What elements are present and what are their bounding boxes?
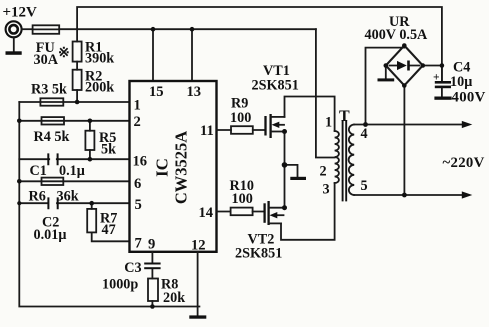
svg-text:9: 9 xyxy=(148,237,155,253)
svg-text:47: 47 xyxy=(102,222,116,238)
svg-text:14: 14 xyxy=(199,205,214,221)
svg-text:4: 4 xyxy=(361,126,368,142)
svg-text:3: 3 xyxy=(323,182,330,198)
svg-text:390k: 390k xyxy=(85,51,114,67)
svg-text:30A: 30A xyxy=(34,52,59,68)
svg-text:0.1μ: 0.1μ xyxy=(59,163,85,179)
svg-text:R3 5k: R3 5k xyxy=(31,82,67,98)
svg-text:2SK851: 2SK851 xyxy=(235,246,282,262)
svg-text:5k: 5k xyxy=(101,142,116,158)
svg-text:100: 100 xyxy=(230,110,251,126)
svg-text:6: 6 xyxy=(134,176,141,192)
svg-text:R4 5k: R4 5k xyxy=(34,129,70,145)
svg-text:C3: C3 xyxy=(124,260,141,276)
svg-text:+12V: +12V xyxy=(3,5,38,21)
svg-text:2: 2 xyxy=(134,114,141,130)
svg-text:~220V: ~220V xyxy=(443,155,485,171)
svg-text:13: 13 xyxy=(187,84,202,100)
svg-text:CW3525A: CW3525A xyxy=(172,131,191,204)
svg-text:C1: C1 xyxy=(30,163,47,179)
svg-text:16: 16 xyxy=(133,154,148,170)
svg-text:200k: 200k xyxy=(85,80,114,96)
svg-text:12: 12 xyxy=(191,238,206,254)
svg-text:5: 5 xyxy=(361,178,368,194)
svg-text:20k: 20k xyxy=(163,290,185,306)
svg-text:※: ※ xyxy=(58,46,70,61)
svg-text:400V: 400V xyxy=(452,90,486,106)
svg-text:2: 2 xyxy=(320,164,327,180)
svg-text:7: 7 xyxy=(135,236,142,252)
svg-text:36k: 36k xyxy=(57,189,79,205)
svg-text:11: 11 xyxy=(200,123,214,139)
svg-text:10μ: 10μ xyxy=(450,74,472,90)
svg-text:2SK851: 2SK851 xyxy=(252,78,299,94)
svg-text:IC: IC xyxy=(152,158,171,177)
svg-text:0.01μ: 0.01μ xyxy=(34,227,67,243)
svg-text:100: 100 xyxy=(232,191,253,207)
svg-text:5: 5 xyxy=(135,197,142,213)
svg-text:1000p: 1000p xyxy=(102,277,138,293)
svg-text:1: 1 xyxy=(134,98,141,114)
svg-text:400V 0.5A: 400V 0.5A xyxy=(365,27,429,43)
svg-text:+: + xyxy=(433,72,440,84)
svg-text:1: 1 xyxy=(325,115,332,131)
svg-text:T: T xyxy=(339,108,350,125)
svg-text:15: 15 xyxy=(149,84,164,100)
svg-text:R6: R6 xyxy=(29,189,46,205)
